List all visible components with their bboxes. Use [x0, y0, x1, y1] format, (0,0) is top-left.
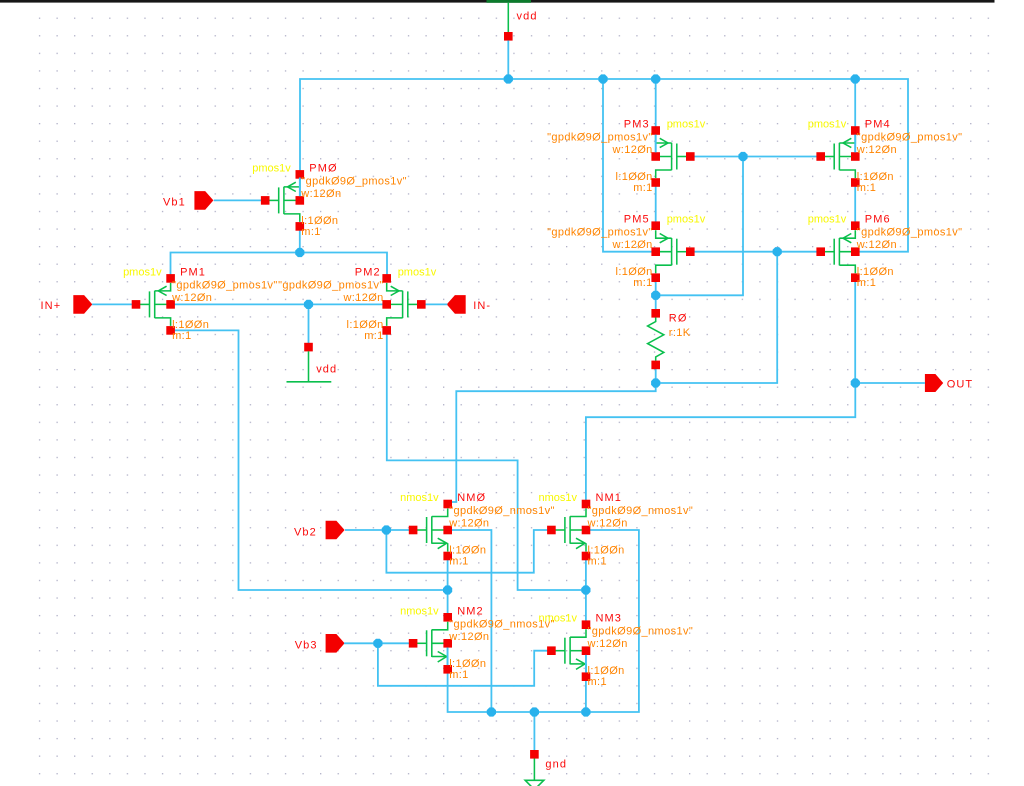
svg-text:PM6: PM6 [865, 214, 891, 226]
svg-text:PM5: PM5 [624, 214, 650, 226]
wire PM1 drain to NM0 source node [171, 330, 448, 590]
svg-text:PMØ: PMØ [309, 162, 337, 174]
transistor PM1 (pmos) [123, 266, 278, 342]
svg-text:gnd: gnd [545, 758, 567, 770]
svg-text:r:1K: r:1K [669, 327, 691, 339]
svg-text:OUT: OUT [947, 379, 974, 391]
node NM0 source / PM1 drain [443, 585, 452, 594]
svg-text:NM3: NM3 [596, 613, 623, 625]
wire bulk rail to vdd symbol [308, 304, 310, 347]
wire R0 bottom node to PM5/PM6 gates [656, 252, 778, 383]
transistor PM5 (pmos) [547, 214, 706, 290]
svg-text:m:1: m:1 [449, 556, 468, 568]
svg-text:RØ: RØ [669, 312, 688, 324]
wire R0 bottom to node [655, 365, 657, 383]
transistor PM4 (pmos) [808, 119, 963, 195]
wire Vb1 to PM0 gate [214, 199, 265, 201]
svg-text:PM3: PM3 [624, 119, 650, 131]
wire R0 bottom node to NM0 drain [448, 383, 656, 502]
svg-text:m:1: m:1 [588, 556, 607, 568]
svg-text:"gpdkØ9Ø_pmos1v": "gpdkØ9Ø_pmos1v" [301, 175, 407, 187]
svg-text:w:12Øn: w:12Øn [611, 144, 652, 156]
wire ground rail to gnd symbol [533, 712, 535, 754]
transistor NM1 (nmos) [538, 492, 693, 568]
wire PM3-PM4 gate rail [690, 156, 820, 158]
svg-text:NM1: NM1 [596, 492, 623, 504]
svg-text:m:1: m:1 [172, 330, 191, 342]
svg-text:"gpdkØ9Ø_pmos1v": "gpdkØ9Ø_pmos1v" [172, 279, 278, 291]
svg-text:w:12Øn: w:12Øn [448, 631, 489, 643]
wire NM0 bulk to ground rail [448, 530, 492, 712]
node Vb3 [373, 639, 382, 648]
wire PM3 source-bulk tie [655, 135, 657, 153]
wire Vb3 to NM2 gate [344, 642, 412, 644]
wire PM6 drain to OUT node [854, 278, 856, 383]
node PM3-PM4 gates [738, 152, 747, 161]
wire NM3 bulk/source to ground rail [585, 651, 587, 712]
node ground rail / gnd [530, 707, 539, 716]
svg-text:IN-: IN- [473, 300, 491, 312]
wire PM4 source-bulk tie [854, 135, 856, 153]
svg-text:"gpdkØ9Ø_pmos1v": "gpdkØ9Ø_pmos1v" [547, 227, 653, 239]
svg-text:NMØ: NMØ [457, 492, 486, 504]
node bulk rail / vdd symbol [304, 300, 313, 309]
svg-text:pmos1v: pmos1v [667, 214, 706, 226]
svg-text:nmos1v: nmos1v [538, 613, 577, 625]
wire OUT junction to pin [855, 382, 925, 384]
pin IN+ [41, 295, 93, 314]
wire NM1 source to NM3 drain [585, 556, 587, 625]
wire PM2 drain to NM1 source node [387, 330, 586, 590]
node vdd rail / vdd stub [504, 74, 513, 83]
wire PM3 drain to PM5 source [655, 183, 657, 226]
svg-text:nmos1v: nmos1v [400, 492, 439, 504]
svg-text:w:12Øn: w:12Øn [171, 292, 212, 304]
node ground rail / NM3 source [581, 707, 590, 716]
svg-text:pmos1v: pmos1v [808, 214, 847, 226]
node Vb2 [382, 525, 391, 534]
pin Vb1 [163, 191, 213, 210]
pin IN- [447, 295, 491, 314]
wire vdd drop to PM3 source/bulk [655, 79, 657, 157]
svg-text:pmos1v: pmos1v [123, 266, 162, 278]
svg-text:PM4: PM4 [865, 119, 891, 131]
node PM0 drain / diff sources [295, 248, 304, 257]
wire PM4 drain to PM6 source [854, 183, 856, 226]
svg-text:vdd: vdd [517, 11, 538, 23]
svg-text:w:12Øn: w:12Øn [300, 188, 341, 200]
svg-text:w:12Øn: w:12Øn [587, 638, 628, 650]
wire IN- to PM2 gate [421, 303, 447, 305]
node vdd rail / PM4 drop [851, 74, 860, 83]
svg-text:w:12Øn: w:12Øn [856, 144, 897, 156]
transistor NM2 (nmos) [400, 605, 555, 681]
wire PM0 drain to diff pair sources [299, 226, 301, 252]
svg-text:"gpdkØ9Ø_nmos1v": "gpdkØ9Ø_nmos1v" [588, 505, 694, 517]
svg-text:Vb1: Vb1 [163, 197, 186, 209]
svg-text:m:1: m:1 [588, 676, 607, 688]
wire vdd drop to PM4 source/bulk [854, 79, 856, 157]
wire vdd stub to top rail [507, 41, 509, 80]
svg-text:vdd: vdd [316, 364, 337, 376]
svg-text:m:1: m:1 [301, 226, 320, 238]
wire NM2 bulk-source tie [447, 643, 449, 669]
svg-text:m:1: m:1 [364, 330, 383, 342]
transistor PM0 (pmos) [252, 162, 407, 238]
transistor NM3 (nmos) [538, 613, 693, 689]
svg-text:w:12Øn: w:12Øn [587, 518, 628, 530]
node PM5 drain / bias [651, 291, 660, 300]
gnd symbol [525, 750, 567, 786]
pin OUT [925, 374, 973, 392]
svg-text:w:12Øn: w:12Øn [342, 292, 383, 304]
wire NM2 bulk-source tie over symbol [447, 648, 449, 666]
vdd supply symbol (bulk) [287, 343, 338, 382]
wire diff pair source rail [171, 253, 388, 279]
svg-text:"gpdkØ9Ø_pmos1v": "gpdkØ9Ø_pmos1v" [857, 132, 963, 144]
wire PM1/PM2 bulk rail [171, 303, 387, 305]
svg-text:m:1: m:1 [633, 277, 652, 289]
pin Vb3 [295, 634, 345, 653]
wire NM3 bulk-source tie over symbol [585, 655, 587, 673]
wire vdd branch to PM5 bulk [603, 79, 656, 252]
wire NM0 source to NM2 drain [447, 556, 449, 617]
svg-text:pmos1v: pmos1v [667, 119, 706, 131]
transistor PM2 (pmos) [278, 266, 437, 342]
svg-text:nmos1v: nmos1v [400, 605, 439, 617]
vdd supply symbol (top) [487, 0, 538, 41]
svg-text:"gpdkØ9Ø_pmos1v": "gpdkØ9Ø_pmos1v" [857, 227, 963, 239]
wire PM3/PM4 gates to PM5 drain node [656, 157, 743, 296]
wire OUT node to NM1 drain [586, 383, 855, 504]
svg-text:PM1: PM1 [180, 266, 206, 278]
node vdd rail / PM5 bulk branch [598, 74, 607, 83]
svg-text:pmos1v: pmos1v [252, 162, 291, 174]
svg-text:IN+: IN+ [41, 300, 62, 312]
node vdd rail / PM3 drop [651, 74, 660, 83]
svg-text:w:12Øn: w:12Øn [611, 239, 652, 251]
wire NM2 source to ground rail and NM1 bulk loop [448, 530, 639, 712]
svg-text:w:12Øn: w:12Øn [448, 518, 489, 530]
svg-text:Vb3: Vb3 [295, 640, 318, 652]
svg-text:NM2: NM2 [457, 605, 484, 617]
wire Vb2 jog to NM1 gate [386, 530, 551, 573]
wire vdd top rail [300, 79, 908, 252]
svg-text:w:12Øn: w:12Øn [856, 239, 897, 251]
node PM5-PM6 gates [773, 247, 782, 256]
wire IN+ to PM1 gate [92, 303, 136, 305]
svg-text:nmos1v: nmos1v [538, 492, 577, 504]
resistor R0 [648, 309, 691, 369]
wire PM5 drain to R0 [655, 278, 657, 314]
wire Vb2 to NM0 gate [345, 529, 413, 531]
svg-text:"gpdkØ9Ø_pmos1v": "gpdkØ9Ø_pmos1v" [278, 279, 384, 291]
svg-text:"gpdkØ9Ø_nmos1v": "gpdkØ9Ø_nmos1v" [449, 505, 555, 517]
svg-text:pmos1v: pmos1v [808, 119, 847, 131]
node OUT [851, 378, 860, 387]
svg-text:m:1: m:1 [449, 669, 468, 681]
svg-text:m:1: m:1 [857, 277, 876, 289]
svg-text:Vb2: Vb2 [294, 526, 317, 538]
transistor PM6 (pmos) [808, 214, 963, 290]
pin Vb2 [294, 521, 345, 540]
svg-text:"gpdkØ9Ø_nmos1v": "gpdkØ9Ø_nmos1v" [588, 626, 694, 638]
svg-text:m:1: m:1 [633, 182, 652, 194]
transistor NM0 (nmos) [400, 492, 555, 568]
svg-text:"gpdkØ9Ø_pmos1v": "gpdkØ9Ø_pmos1v" [547, 132, 653, 144]
node ground rail / NM0 bulk [487, 707, 496, 716]
transistor PM3 (pmos) [547, 119, 706, 195]
node R0 bottom [651, 378, 660, 387]
node NM1 source / PM2 drain [581, 585, 590, 594]
wire Vb3 jog to NM3 gate [378, 643, 552, 686]
svg-text:m:1: m:1 [857, 182, 876, 194]
wire PM5-PM6 gate rail [690, 251, 820, 253]
svg-text:pmos1v: pmos1v [398, 266, 437, 278]
svg-text:PM2: PM2 [355, 266, 381, 278]
wire PM0 source-bulk tie [299, 178, 301, 197]
